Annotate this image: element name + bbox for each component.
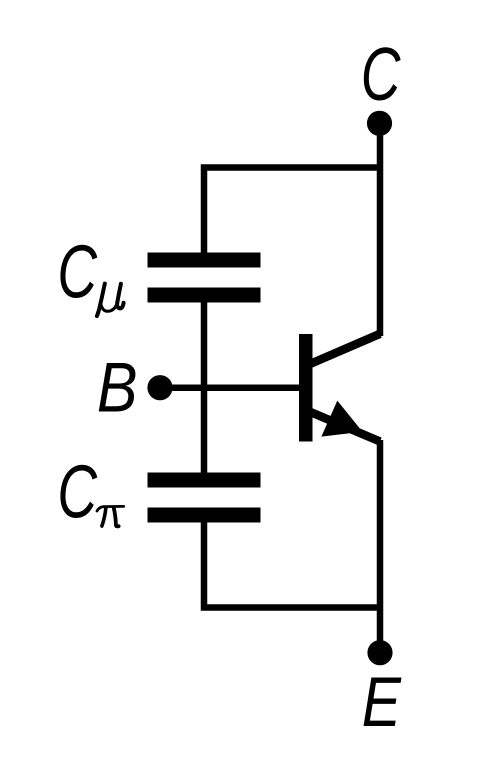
wire: collector vertical [377, 123, 384, 336]
svg-text:C: C [57, 450, 97, 533]
node B terminal dot [147, 375, 172, 400]
svg-text:C: C [361, 33, 401, 116]
wire: Cπ bottom lead and bottom rail to emitter [204, 520, 383, 608]
node C terminal dot [367, 111, 392, 136]
svg-text:B: B [97, 347, 138, 426]
capacitor Cπ [148, 473, 261, 523]
wire: base [160, 384, 305, 391]
wire: emitter vertical [377, 440, 384, 653]
transistor Q1 [299, 334, 380, 442]
wire: Cmu top lead up and top rail to collector [204, 168, 383, 256]
svg-text:E: E [362, 662, 402, 741]
node E terminal dot [367, 640, 392, 665]
capacitor Cμ [148, 253, 261, 303]
wire: Cμ bottom lead down to Cπ top plate [201, 300, 208, 475]
svg-text:C: C [57, 230, 97, 313]
